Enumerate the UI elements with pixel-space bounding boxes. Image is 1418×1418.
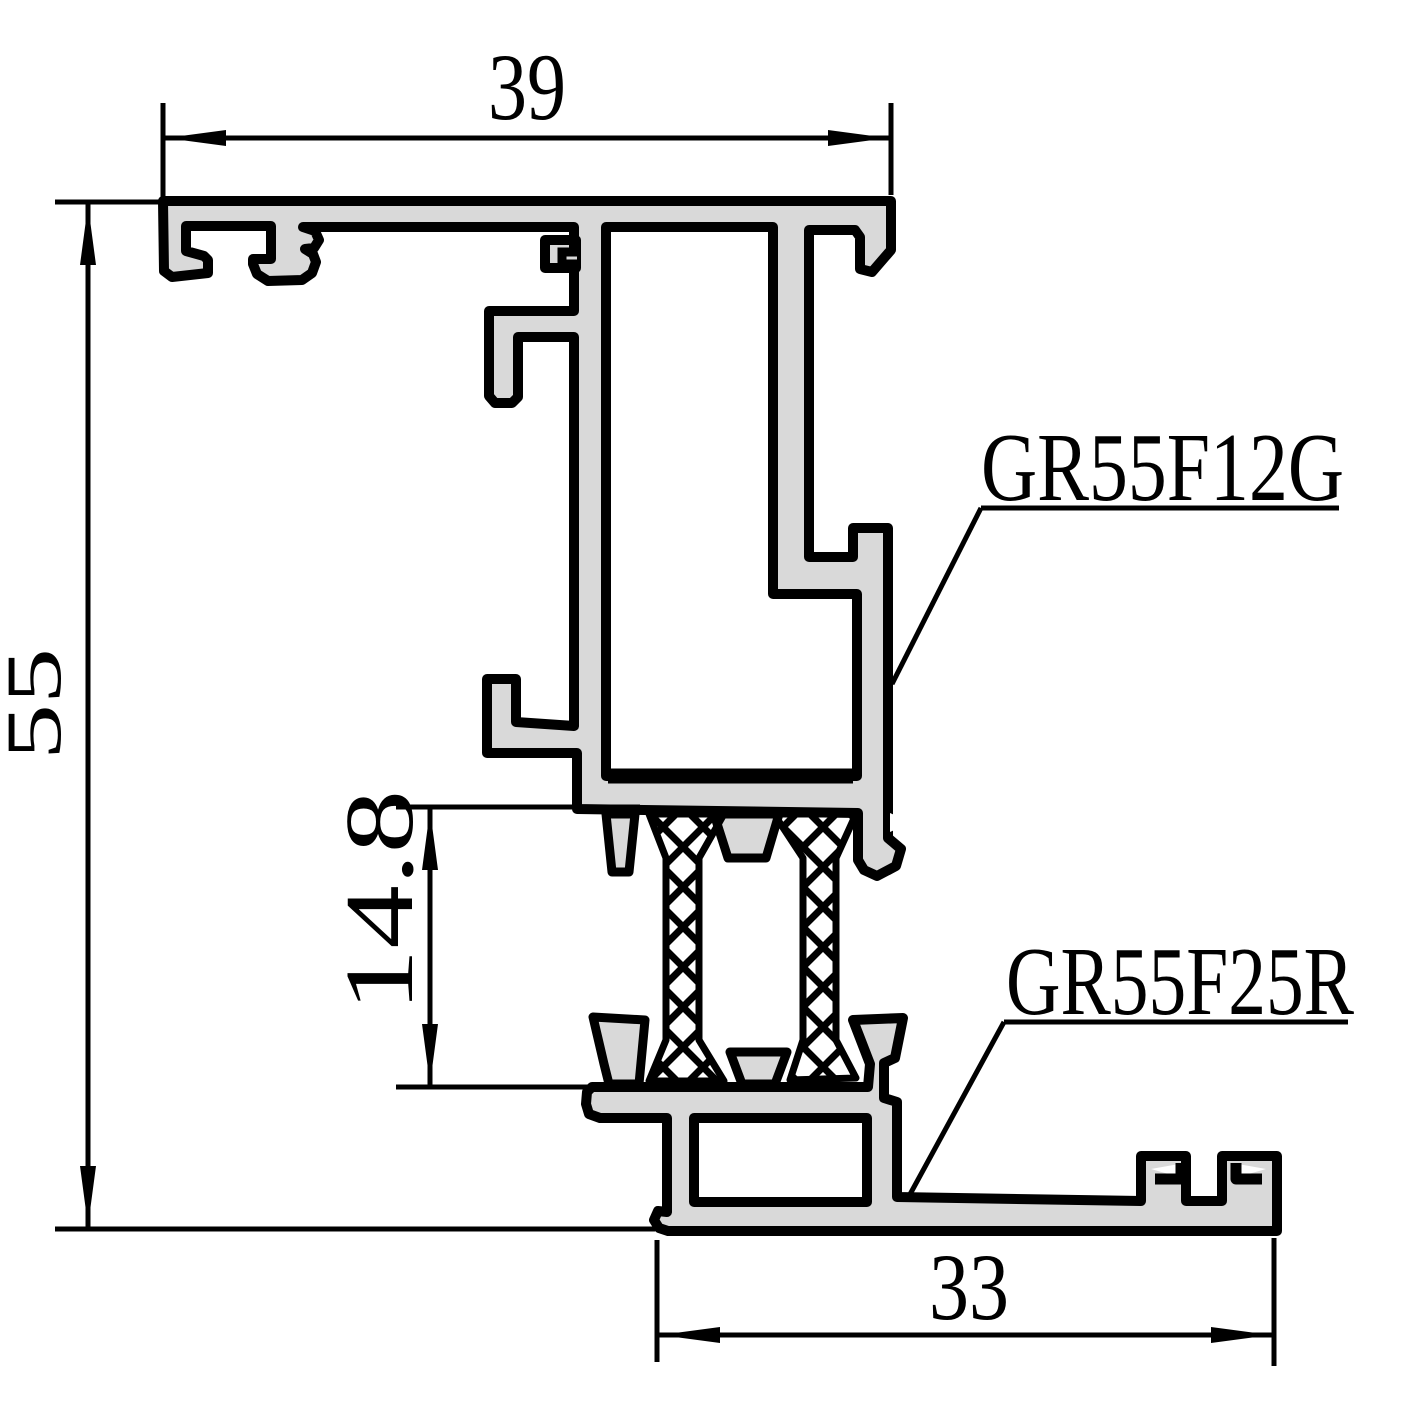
dimension 39 line xyxy=(163,136,891,141)
hook mouth white right xyxy=(1238,1164,1266,1177)
svg-text:33: 33 xyxy=(929,1234,1009,1340)
dimension 33 extension lines xyxy=(657,1238,1274,1366)
label GR55F12G leader xyxy=(892,508,981,684)
hook lip right xyxy=(1236,1163,1262,1179)
label GR55F25R leader xyxy=(908,1022,1004,1198)
svg-text:55: 55 xyxy=(0,648,77,760)
clip tooth in notch xyxy=(562,252,577,264)
svg-text:39: 39 xyxy=(488,34,566,140)
svg-text:14.8: 14.8 xyxy=(326,790,434,1012)
dimension 39 arrows xyxy=(166,130,888,146)
profile GR55F25R bottom frame body xyxy=(586,1018,1277,1231)
dimension 14.8 arrows xyxy=(422,810,438,1084)
dimension 14.8 extension lines xyxy=(396,807,640,1087)
dimension 55 line xyxy=(86,202,91,1229)
thermal break strip right xyxy=(774,814,856,1080)
leg side notch xyxy=(890,813,899,832)
gasket wedge top-left xyxy=(606,814,635,872)
profile GR55F12G top frame body xyxy=(163,201,901,876)
dimension 33 line xyxy=(657,1333,1274,1338)
hook mouth white left xyxy=(1151,1164,1179,1177)
hook lip left xyxy=(1155,1163,1181,1179)
arm top edge thickening xyxy=(608,769,853,784)
dimension 55 arrows xyxy=(80,205,96,1226)
gasket wedge bottom-left xyxy=(593,1017,645,1084)
dimension 55 extension lines xyxy=(55,202,655,1229)
thermal break strip left xyxy=(649,814,724,1081)
gasket wedge bottom-middle xyxy=(730,1052,787,1084)
dimension 33 arrows xyxy=(660,1327,1271,1343)
label GR55F12G underline xyxy=(981,506,1339,511)
label GR55F25R underline xyxy=(1004,1020,1348,1025)
dimension 39 extension lines xyxy=(163,103,891,197)
gasket wedge top-middle xyxy=(714,814,779,858)
dimension 14.8 line xyxy=(428,807,433,1087)
